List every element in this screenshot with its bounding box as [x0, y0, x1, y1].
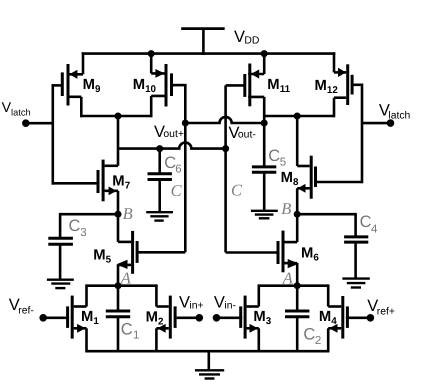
transistor M2 (NMOS) — [156, 284, 199, 352]
svg-text:M: M — [319, 309, 331, 325]
node A left — [115, 282, 122, 289]
ground under C6 — [146, 212, 173, 220]
junction dot rail M11 source — [261, 50, 268, 57]
ground under C4 — [342, 279, 369, 288]
label V_out+ — [154, 123, 184, 141]
capacitor C5 — [252, 167, 276, 211]
junction dot rail M10 source — [148, 50, 155, 57]
capacitor C2 — [285, 286, 309, 352]
node B right — [294, 211, 301, 218]
svg-text:M: M — [83, 77, 95, 93]
svg-text:V: V — [234, 28, 245, 46]
ground under C5 — [251, 211, 278, 219]
wire V_latch left vertical — [51, 84, 54, 185]
wire node A right bus — [259, 284, 328, 287]
svg-text:9: 9 — [95, 84, 101, 95]
label M6 — [301, 246, 319, 264]
svg-text:B: B — [281, 199, 291, 218]
label M12 — [315, 78, 339, 96]
svg-text:C: C — [231, 180, 243, 199]
svg-text:M: M — [253, 309, 265, 325]
svg-text:M: M — [281, 170, 293, 186]
terminal V_latch right — [387, 119, 395, 127]
label M11 — [267, 77, 290, 95]
wire node B left to C3 — [60, 213, 118, 216]
terminal V_ref+ — [367, 314, 375, 322]
wire node B right to C4 — [297, 213, 355, 216]
svg-text:M: M — [267, 77, 279, 93]
wire left drain bus (Vout+ node) — [81, 115, 151, 118]
node A right — [294, 282, 301, 289]
svg-text:in-: in- — [224, 300, 236, 311]
terminal V_ref- — [39, 314, 47, 322]
svg-text:M: M — [315, 78, 327, 94]
junction dot upper cross left — [182, 120, 189, 127]
svg-text:7: 7 — [125, 180, 131, 191]
svg-text:1: 1 — [93, 316, 99, 327]
svg-text:C: C — [360, 213, 372, 231]
svg-text:V: V — [214, 294, 225, 312]
label V_in- — [214, 294, 236, 312]
svg-text:1: 1 — [133, 329, 139, 341]
transistor M4 (NMOS) — [328, 284, 370, 352]
svg-text:C: C — [121, 320, 133, 338]
wire Vout+ drop vertical — [117, 115, 120, 166]
label M9 — [83, 77, 101, 95]
label V_ref+ — [367, 297, 395, 317]
label C2 — [303, 326, 321, 347]
transistor M12 (PMOS) — [334, 52, 363, 117]
svg-text:in+: in+ — [189, 300, 203, 311]
terminal V_in+ — [196, 314, 204, 322]
svg-text:5: 5 — [280, 157, 286, 169]
junction dot right drain bus — [294, 113, 301, 120]
wire M8 source to node B right — [296, 188, 299, 215]
wire lower cross Vout+ net with hop — [118, 143, 226, 149]
ground bottom center — [195, 351, 224, 378]
svg-text:M: M — [146, 310, 158, 326]
VDD supply symbol — [181, 29, 225, 55]
wire M11/M6 gate vertical — [224, 85, 227, 252]
svg-text:B: B — [123, 204, 133, 223]
wire upper cross Vout- net with hop — [185, 117, 264, 123]
transistor M10 (PMOS) — [151, 54, 186, 118]
svg-text:M: M — [112, 173, 124, 189]
wire M10/M5 gate vertical — [184, 85, 187, 252]
svg-text:6: 6 — [313, 253, 319, 264]
svg-text:4: 4 — [371, 223, 378, 235]
wire V_latch left tap — [26, 122, 53, 125]
svg-text:4: 4 — [331, 316, 337, 327]
label M1 — [81, 309, 99, 327]
ground under C3 — [47, 280, 74, 288]
capacitor C3 — [48, 213, 73, 280]
svg-text:latch: latch — [388, 111, 410, 122]
wire right drain bus (Vout- node) — [264, 115, 334, 118]
wire top supply rail — [82, 52, 336, 55]
transistor M3 (NMOS) — [217, 284, 259, 352]
transistor M7 (NMOS) — [52, 160, 119, 202]
label C1 — [121, 320, 140, 341]
label M10 — [133, 77, 157, 95]
svg-text:6: 6 — [175, 164, 181, 176]
svg-text:M: M — [81, 309, 93, 325]
transistor M1 (NMOS) — [43, 284, 86, 352]
wire bottom rail — [87, 350, 329, 353]
label V_out- — [229, 124, 256, 142]
label C3 — [69, 217, 87, 239]
label V_latch left — [2, 100, 31, 117]
terminal V_latch left — [22, 119, 30, 127]
wire V_latch right tap — [362, 122, 391, 125]
label C5 — [268, 147, 286, 168]
svg-text:2: 2 — [158, 317, 164, 328]
svg-text:out+: out+ — [163, 129, 184, 140]
capacitor C6 — [148, 147, 172, 212]
transistor M6 — [226, 214, 299, 286]
label C6 — [164, 154, 182, 176]
svg-text:latch: latch — [11, 107, 31, 117]
svg-text:11: 11 — [280, 84, 291, 95]
junction dot lower cross right end — [222, 145, 229, 152]
label M3 — [253, 309, 271, 327]
label M5 — [93, 248, 111, 266]
svg-text:3: 3 — [80, 227, 86, 239]
wire node A left bus — [87, 284, 157, 287]
svg-text:M: M — [301, 246, 313, 262]
wire V_latch right vertical — [361, 84, 364, 184]
svg-text:12: 12 — [327, 85, 338, 96]
svg-text:10: 10 — [145, 84, 156, 95]
transistor M11 (PMOS) — [226, 54, 265, 168]
svg-text:C: C — [171, 181, 183, 200]
svg-text:out-: out- — [238, 130, 256, 141]
label V_ref- — [9, 296, 34, 317]
wire M7 source to node B — [117, 191, 120, 216]
junction dot lower cross at C6 — [156, 145, 163, 152]
terminal V_in- — [213, 314, 221, 322]
svg-text:8: 8 — [293, 177, 299, 188]
svg-text:C: C — [303, 326, 315, 344]
wire M8 drain drop vertical — [296, 115, 299, 166]
svg-text:C: C — [268, 147, 280, 165]
svg-text:ref+: ref+ — [377, 306, 395, 317]
junction dot upper cross right — [261, 120, 268, 127]
label V_DD — [234, 28, 259, 46]
label M2 — [146, 310, 164, 328]
label M4 — [319, 309, 337, 327]
svg-text:DD: DD — [244, 35, 259, 46]
capacitor C1 — [106, 286, 130, 352]
node B left — [115, 211, 122, 218]
svg-text:M: M — [133, 77, 145, 93]
svg-text:ref-: ref- — [18, 306, 34, 317]
capacitor C4 — [344, 213, 368, 279]
svg-text:5: 5 — [106, 255, 112, 266]
transistor M5 — [116, 214, 185, 286]
label M8 — [281, 170, 299, 188]
svg-text:C: C — [69, 217, 81, 235]
label V_in+ — [179, 294, 204, 312]
svg-text:V: V — [179, 294, 190, 312]
svg-text:M: M — [93, 248, 105, 264]
svg-text:3: 3 — [266, 316, 272, 327]
junction dot left drain bus — [115, 113, 122, 120]
svg-text:2: 2 — [315, 335, 321, 347]
label M7 — [112, 173, 130, 191]
transistor M9 (PMOS) — [52, 52, 84, 117]
label V_latch right — [379, 102, 411, 122]
label C4 — [360, 213, 378, 235]
transistor M8 (NMOS) — [297, 156, 362, 199]
